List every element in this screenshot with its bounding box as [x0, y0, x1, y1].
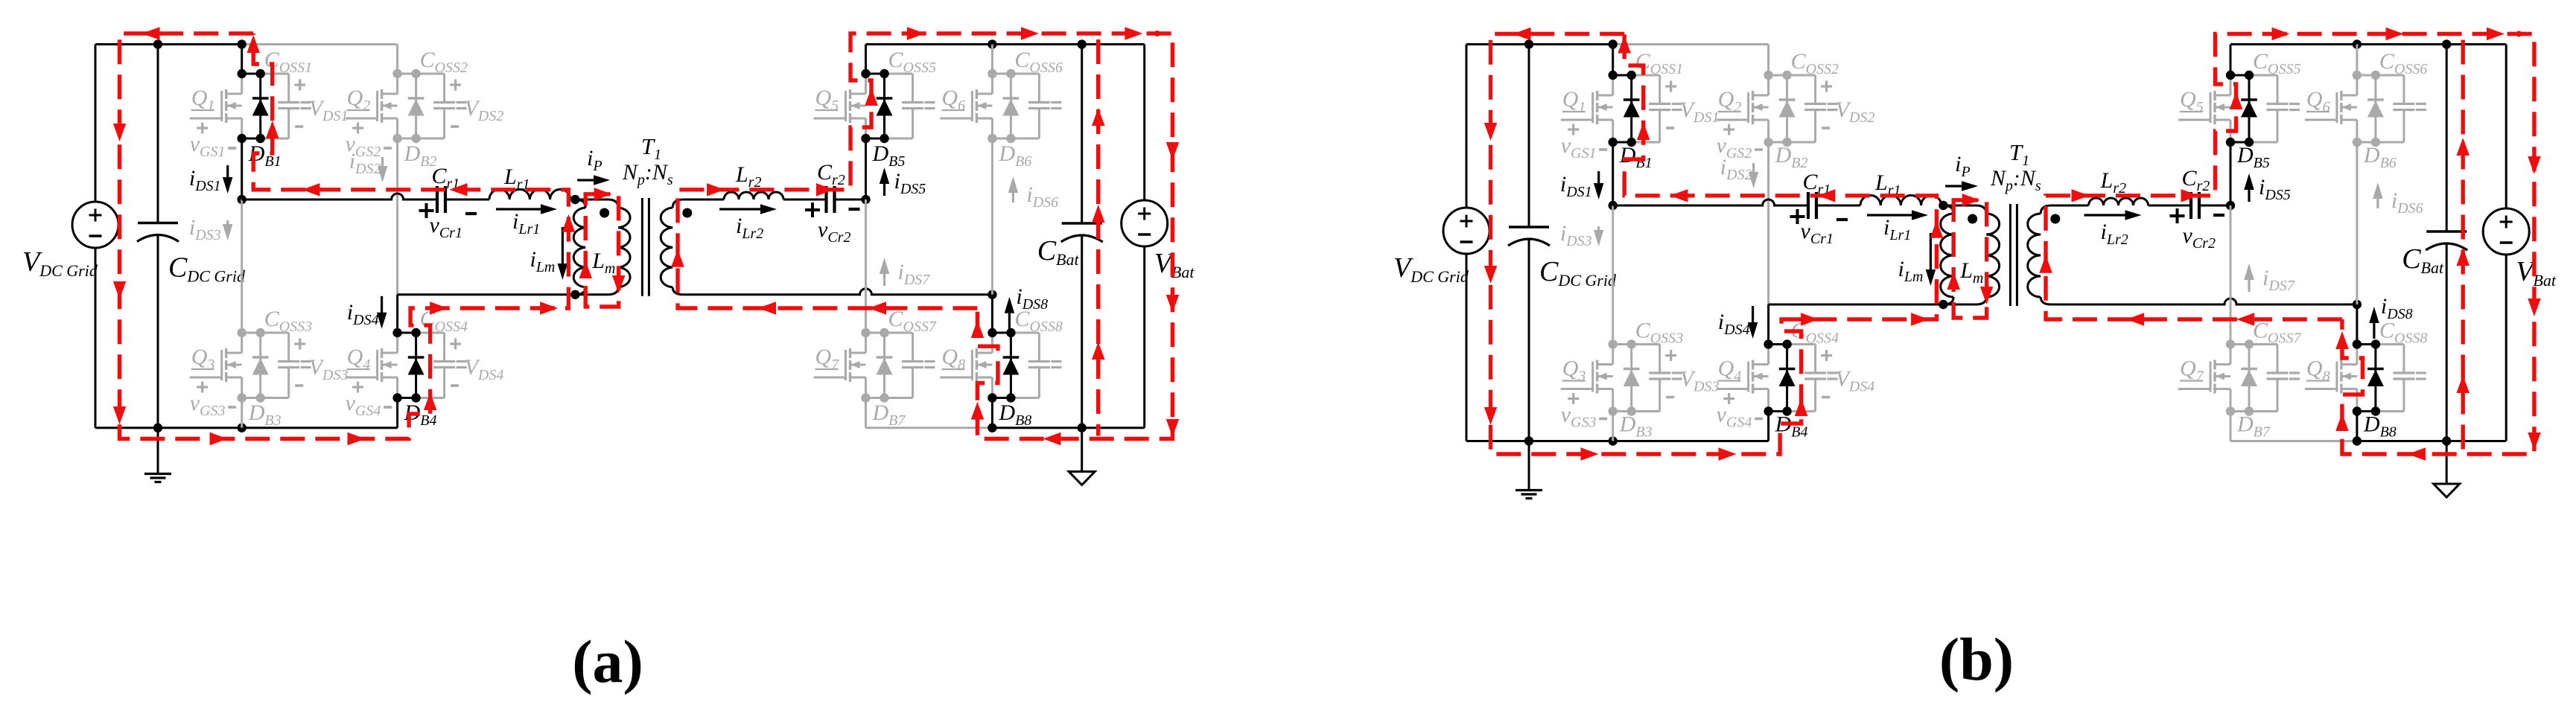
- transistor Q1 cell wiring: [242, 73, 261, 75]
- capacitor COSS7: [912, 333, 914, 362]
- label iLm: [562, 227, 564, 270]
- wire leg B sections: [1767, 142, 1769, 304]
- wire primary bottom rail: [398, 293, 608, 296]
- diode DB5: [883, 74, 885, 138]
- transistor Q8 MOSFET symbol: [991, 333, 993, 353]
- capacitor COSS6: [1038, 74, 1040, 103]
- label iLr2: [719, 208, 767, 210]
- wire leg A mid section: [241, 138, 243, 199]
- transistor Q2 cell wiring: [1769, 74, 1787, 77]
- diode DB2: [1786, 75, 1788, 142]
- node Q2 cell junction dots: [1764, 71, 1772, 80]
- transistor Q7 MOSFET symbol: [865, 333, 867, 353]
- wire leg A drain: [1612, 45, 1614, 76]
- node bottom rail / CDC+ground junction: [1524, 436, 1533, 445]
- capacitor CDC Grid: [1528, 45, 1530, 228]
- capacitor CBat: [1081, 45, 1083, 224]
- transistor Q6 MOSFET symbol: [991, 74, 993, 94]
- transformer T1 primary winding: [1976, 205, 1986, 214]
- node Q3 cell junction dots: [238, 328, 247, 337]
- wire VBat branch: [2505, 45, 2507, 209]
- wire top rail left (DC grid side): [95, 43, 242, 45]
- diode DB6: [1010, 74, 1012, 138]
- wire red: CBat branch: [1096, 39, 1100, 436]
- transistor Q5 MOSFET symbol: [2230, 75, 2232, 95]
- transistor Q8 cell wiring: [992, 332, 1011, 334]
- capacitor Cr1: [1807, 192, 1810, 219]
- diode DB4: [415, 333, 417, 398]
- ground symbol (triangle): [1081, 428, 1083, 472]
- wire top rail gray segment to Q2: [242, 43, 398, 45]
- transistor Q2 MOSFET symbol: [396, 74, 398, 94]
- transformer secondary polarity dot: [2050, 214, 2060, 224]
- voltage source VBat: [1122, 200, 1168, 246]
- diode DB1: [1630, 75, 1632, 142]
- inductor Lr1: [489, 189, 570, 199]
- capacitor COSS2: [1814, 75, 1816, 104]
- label VDS4: [1821, 354, 1832, 357]
- label iLr1: [1867, 214, 1918, 216]
- label VDS1: [294, 83, 305, 86]
- wire top rail left (DC grid side): [1466, 43, 1613, 45]
- transformer secondary winding: [672, 199, 683, 208]
- svg-text:(a): (a): [572, 628, 643, 695]
- node Q1 cell junction dots: [238, 69, 247, 78]
- transistor Q4 MOSFET symbol: [396, 333, 398, 353]
- label VDS3: [1665, 354, 1676, 357]
- transformer secondary winding: [2041, 205, 2051, 214]
- transistor Q3 cell wiring: [1613, 343, 1632, 345]
- node Q7 cell junction dots: [2226, 339, 2235, 348]
- label VDS1: [1665, 85, 1676, 87]
- circuit (a): [22, 27, 1195, 485]
- capacitor COSS2: [443, 74, 445, 103]
- transistor Q3 MOSFET symbol: [241, 333, 243, 353]
- wire left source branch: [1466, 45, 1468, 208]
- wire leg C mid sections: [2230, 142, 2232, 205]
- transistor Q5 MOSFET symbol: [865, 74, 867, 94]
- wire bottom rail right: [2230, 440, 2357, 442]
- transistor Q2 MOSFET symbol: [1767, 75, 1769, 95]
- node top rail / CDC junction: [1524, 39, 1533, 48]
- transistor Q7 MOSFET symbol: [2230, 345, 2232, 365]
- label vGS2: [1723, 128, 1734, 130]
- label iLr1: [496, 208, 547, 210]
- wire leg C mid sections: [865, 138, 867, 199]
- label vGS1: [197, 127, 208, 129]
- wire primary bottom rail: [1769, 304, 1976, 306]
- label VDS2: [450, 83, 461, 86]
- capacitor CBat: [2446, 45, 2448, 232]
- wire red: top rail left: [120, 33, 569, 439]
- inductor Lm (magnetizing): [1943, 205, 1953, 214]
- node Q6 cell junction dots: [988, 69, 996, 78]
- node leg D / secondary bottom junction: [988, 290, 996, 299]
- diode DB8: [2374, 345, 2376, 412]
- wire VBat branch: [1143, 45, 1145, 201]
- node Q8 cell junction dots: [2353, 339, 2362, 348]
- voltage source VBat: [2483, 208, 2529, 255]
- wire red: secondary side: [2046, 34, 2534, 455]
- transistor Q5 cell wiring: [2230, 74, 2249, 77]
- diode DB6: [2374, 75, 2376, 142]
- wire Lr2 to Cr2: [783, 199, 827, 201]
- wire node to primary top: [575, 199, 608, 201]
- label vGS3: [197, 386, 208, 388]
- node top rail / CDC junction: [153, 39, 162, 48]
- label VDS4: [450, 342, 461, 345]
- label iLr2: [2084, 214, 2132, 216]
- wire red: secondary side: [678, 33, 1172, 439]
- node leg C mid junction: [2226, 201, 2235, 210]
- diode DB3: [1630, 345, 1632, 412]
- ground symbol (triangle): [2446, 441, 2448, 485]
- transformer core: [641, 198, 643, 296]
- wire secondary bottom rail with hop over leg C: [683, 289, 992, 295]
- wire Cr1 to Lr1: [445, 199, 489, 201]
- node Q1 cell junction dots: [1609, 71, 1618, 80]
- diode DB8: [1010, 333, 1012, 398]
- transistor Q8 cell wiring: [2357, 343, 2376, 345]
- transistor Q1 MOSFET symbol: [1612, 75, 1614, 95]
- capacitor COSS1: [1659, 75, 1661, 104]
- wire leg D sections: [991, 138, 993, 295]
- node Lm top: [570, 195, 579, 204]
- svg-text:Np:Ns: Np:Ns: [622, 160, 673, 188]
- transistor Q4 MOSFET symbol: [1767, 345, 1769, 365]
- node Q5 cell junction dots: [861, 69, 870, 78]
- capacitor Cr2: [2189, 192, 2192, 219]
- wire red: primary winding loop: [585, 194, 618, 307]
- inductor Lr2: [2089, 198, 2149, 205]
- node Q3 cell junction dots: [1609, 339, 1618, 348]
- transistor Q6 cell wiring: [992, 73, 1011, 75]
- transistor Q1 cell wiring: [1613, 74, 1632, 77]
- diode DB4: [1786, 345, 1788, 412]
- capacitor COSS3: [287, 333, 290, 362]
- capacitor COSS8: [2402, 345, 2405, 374]
- transistor Q7 cell wiring: [2230, 343, 2249, 345]
- wire top rail right: [2230, 43, 2506, 45]
- node Q4 cell junction dots: [392, 328, 401, 337]
- wire node to primary top: [1943, 205, 1976, 207]
- ground symbol (earth): [157, 428, 159, 474]
- capacitor COSS4: [1814, 345, 1816, 374]
- transistor Q7 cell wiring: [866, 332, 885, 334]
- wire leg D sections: [2356, 142, 2358, 304]
- node Lm top: [1939, 201, 1947, 210]
- node bottom rail / CDC+ground junction: [153, 424, 162, 432]
- voltage source VDC Grid: [72, 202, 118, 248]
- wire Lr1 to Lm node: [570, 199, 576, 201]
- voltage source VDC Grid: [1443, 208, 1489, 254]
- capacitor COSS7: [2277, 345, 2279, 374]
- transistor Q1 MOSFET symbol: [241, 74, 243, 94]
- node top rail / leg A junction: [1609, 39, 1618, 48]
- label vGS1: [1568, 128, 1579, 130]
- transformer T1 primary winding: [608, 199, 618, 208]
- wire top rail right: [866, 43, 1145, 45]
- transistor Q5 cell wiring: [866, 73, 885, 75]
- label VDS2: [1821, 85, 1832, 87]
- inductor Lm (magnetizing): [575, 199, 585, 208]
- label vGS4: [352, 386, 363, 388]
- wire secondary top to Lr2: [683, 199, 724, 201]
- wire Cr2 to leg C: [2199, 205, 2230, 207]
- wire leg A drain: [241, 45, 243, 74]
- wire mid rail (tank) with hop over leg B: [1613, 199, 1808, 205]
- transformer core: [2009, 204, 2011, 306]
- svg-text:Np:Ns: Np:Ns: [1990, 166, 2041, 194]
- label vGS3: [1568, 397, 1579, 400]
- circuit (b): [1393, 28, 2557, 499]
- capacitor Cr1: [436, 186, 439, 213]
- diode DB2: [415, 74, 417, 138]
- capacitor COSS8: [1038, 333, 1040, 362]
- node bottom rail / leg A junction: [1609, 436, 1618, 445]
- wire red: CBat branch: [2461, 40, 2464, 452]
- diode DB3: [259, 333, 261, 398]
- capacitor COSS5: [912, 74, 914, 103]
- node Q5 cell junction dots: [2226, 71, 2235, 80]
- node Lm bottom: [570, 290, 579, 299]
- diode DB1: [259, 74, 261, 138]
- label vGS2: [352, 127, 363, 129]
- node Q8 cell junction dots: [988, 328, 996, 337]
- wire bottom rail left: [1466, 440, 1769, 442]
- transistor Q4 cell wiring: [1769, 343, 1787, 345]
- wire red: top rail left: [1491, 34, 1937, 455]
- node Q4 cell junction dots: [1764, 339, 1772, 348]
- transistor Q2 cell wiring: [398, 73, 416, 75]
- wire Cr1 to Lr1: [1816, 205, 1860, 207]
- transistor Q3 cell wiring: [242, 332, 261, 334]
- svg-text:(b): (b): [1939, 625, 2014, 693]
- node Q6 cell junction dots: [2353, 71, 2362, 80]
- transistor Q6 MOSFET symbol: [2356, 75, 2358, 95]
- capacitor COSS4: [443, 333, 445, 362]
- node Q7 cell junction dots: [861, 328, 870, 337]
- inductor Lr1: [1860, 195, 1941, 205]
- node top rail / leg A junction: [238, 39, 247, 48]
- wire secondary bottom rail with hop over leg C: [2051, 298, 2357, 304]
- wire secondary top to Lr2: [2051, 205, 2088, 207]
- wire bottom rail right: [866, 427, 993, 429]
- wire Lr2 to Cr2: [2149, 205, 2192, 207]
- label vGS4: [1723, 397, 1734, 400]
- transistor Q4 cell wiring: [398, 332, 416, 334]
- transistor Q3 MOSFET symbol: [1612, 345, 1614, 365]
- wire red: primary winding loop: [1953, 200, 1986, 318]
- node leg C mid junction: [861, 195, 870, 204]
- node bottom rail / leg A junction: [238, 424, 247, 432]
- capacitor Cr2: [824, 186, 827, 213]
- diode DB5: [2248, 75, 2251, 142]
- capacitor CDC Grid: [157, 45, 159, 223]
- inductor Lr2: [724, 192, 783, 199]
- node Lm bottom: [1939, 300, 1947, 309]
- transformer primary polarity dot: [1968, 214, 1977, 224]
- capacitor COSS3: [1659, 345, 1661, 374]
- transistor Q8 MOSFET symbol: [2356, 345, 2358, 365]
- node leg D / secondary bottom junction: [2353, 300, 2362, 309]
- wire bottom rail left: [95, 427, 398, 429]
- capacitor COSS5: [2277, 75, 2279, 104]
- wire Cr2 to leg C: [835, 199, 866, 201]
- capacitor COSS6: [2402, 75, 2405, 104]
- capacitor COSS1: [287, 74, 290, 103]
- label iLm: [1930, 233, 1932, 276]
- transformer primary polarity dot: [600, 208, 609, 218]
- wire Lr1 to Lm node: [1941, 205, 1944, 207]
- wire leg A mid section: [1612, 142, 1614, 205]
- wire leg B sections: [396, 138, 398, 295]
- transistor Q6 cell wiring: [2357, 74, 2376, 77]
- wire left source branch: [95, 45, 97, 202]
- diode DB7: [883, 333, 885, 398]
- wire mid rail (tank) with hop over leg B: [242, 194, 437, 199]
- wire top rail gray segment to Q2: [1613, 43, 1769, 45]
- diode DB7: [2248, 345, 2251, 412]
- ground symbol (earth): [1528, 441, 1530, 491]
- label VDS3: [294, 342, 305, 345]
- transformer secondary polarity dot: [682, 208, 692, 218]
- node Q2 cell junction dots: [392, 69, 401, 78]
